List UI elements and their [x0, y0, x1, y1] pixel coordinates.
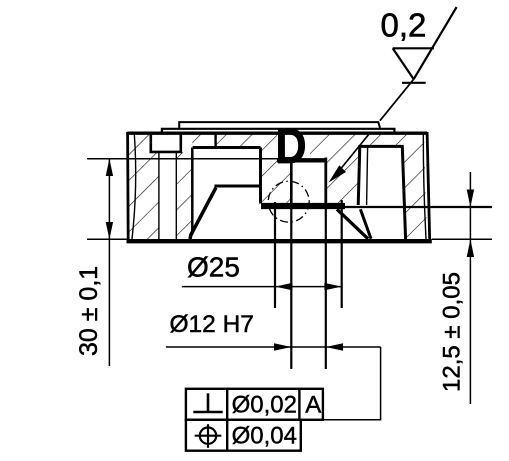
svg-text:12,5 ± 0,05: 12,5 ± 0,05	[439, 272, 466, 392]
notch line y147	[193, 146, 261, 149]
svg-text:Ø0,02: Ø0,02	[232, 392, 297, 419]
svg-text:A: A	[305, 392, 321, 419]
leader to tolerance frame	[323, 347, 381, 420]
trapezoid inner thin line	[367, 147, 368, 205]
right outer edge	[427, 132, 430, 241]
dimension line Ø25	[182, 286, 342, 288]
screw hole left edge	[158, 152, 160, 239]
bore left wall	[290, 158, 293, 204]
roughness symbol top bar	[393, 47, 434, 49]
notch vertical	[214, 133, 216, 148]
screw hole right edge	[175, 152, 177, 239]
plate2 top line	[162, 129, 395, 133]
dimension line	[108, 159, 110, 366]
arrowhead Ø25 right	[324, 283, 341, 290]
hatch band between hole and cavity wall	[176, 152, 192, 240]
white mask screw band	[160, 153, 176, 239]
bottom bar	[127, 239, 432, 243]
right cavity cone S1	[337, 209, 368, 239]
shoulder vertical	[259, 148, 262, 204]
cavity left slant	[190, 188, 216, 240]
arrowhead 12,5 bottom	[467, 239, 474, 257]
arrowhead Ø12 right	[326, 343, 343, 350]
leader line upper segment	[380, 79, 414, 121]
hatch strip above notch	[192, 134, 258, 148]
shelf	[215, 185, 261, 188]
roughness symbol long leg	[414, 7, 457, 79]
bore right wall	[324, 158, 327, 205]
extension line Ø12 left	[290, 203, 292, 369]
arrowhead Ø25 left	[275, 283, 292, 290]
svg-text:0,2: 0,2	[381, 7, 427, 44]
arrow up	[106, 159, 113, 176]
arrowhead Ø12 left	[274, 343, 291, 350]
white mask small rect interior	[152, 134, 180, 151]
hatch right band	[403, 134, 427, 240]
extension line Ø25 right	[341, 200, 343, 308]
roughness symbol left leg	[393, 48, 414, 79]
position symbol	[200, 428, 216, 444]
left silhouette thin	[132, 134, 136, 239]
hatch strip right of D above bore	[310, 134, 326, 159]
leader line lower segment	[332, 133, 370, 180]
right silhouette thin	[423, 134, 426, 239]
arrowhead 12,5 top	[467, 190, 474, 208]
cavity left wall	[191, 148, 194, 235]
trapezoid boss	[358, 146, 405, 239]
small rectangle recess	[150, 133, 183, 152]
bore ceiling thick (merges with D bottom)	[277, 158, 327, 162]
svg-text:30 ± 0,1: 30 ± 0,1	[75, 266, 103, 356]
hatch right of bore to trapezoid	[326, 134, 403, 205]
hatch strip left of bore	[261, 134, 292, 203]
svg-text:D: D	[275, 118, 306, 174]
svg-text:Ø12 H7: Ø12 H7	[170, 311, 254, 338]
right cavity cone S2	[360, 209, 371, 239]
svg-text:Ø25: Ø25	[187, 252, 240, 283]
left outer edge	[126, 132, 129, 241]
roughness symbol machining bar	[402, 82, 426, 84]
hatch left band	[129, 134, 159, 240]
dimension line Ø12 H7	[166, 346, 381, 348]
face line continuing right + 12.5 top extension	[345, 206, 492, 208]
counterbore ceiling thick bar	[261, 203, 345, 209]
top edge	[127, 131, 427, 134]
perpendicularity symbol	[193, 411, 222, 414]
leader arrowhead	[329, 165, 346, 182]
detail circle D (dash-dot)	[268, 181, 309, 222]
bottom extension line 12,5	[432, 238, 492, 240]
plate1 top line	[179, 122, 380, 128]
svg-text:Ø0,04: Ø0,04	[232, 423, 297, 450]
bottom extension line	[87, 238, 127, 240]
extension line Ø25 left	[274, 202, 276, 308]
extension line Ø12 right	[325, 204, 327, 369]
inner ceiling line + 30-dim top extension	[87, 158, 291, 160]
dimension line 12,5	[469, 172, 471, 404]
arrow down	[106, 222, 113, 239]
